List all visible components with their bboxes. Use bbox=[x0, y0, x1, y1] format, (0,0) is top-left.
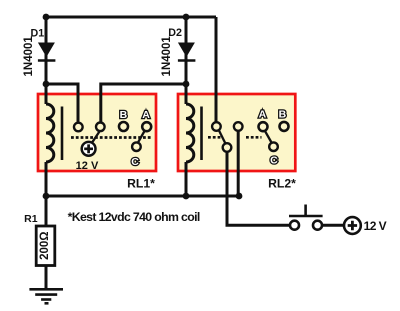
svg-text:A: A bbox=[142, 109, 150, 121]
svg-text:1N4001: 1N4001 bbox=[23, 36, 35, 77]
svg-text:RL1*: RL1* bbox=[127, 177, 155, 191]
svg-text:B: B bbox=[279, 109, 287, 121]
svg-text:C: C bbox=[270, 155, 278, 167]
svg-text:12 V: 12 V bbox=[76, 160, 99, 172]
svg-text:RL2*: RL2* bbox=[268, 177, 296, 191]
svg-text:12 V: 12 V bbox=[364, 219, 387, 233]
svg-text:C: C bbox=[131, 156, 139, 168]
svg-text:200Ω: 200Ω bbox=[39, 231, 51, 259]
svg-text:1N4001: 1N4001 bbox=[161, 36, 173, 77]
svg-text:B: B bbox=[120, 109, 128, 121]
svg-text:R1: R1 bbox=[24, 213, 38, 225]
svg-text:*Kest 12vdc 740 ohm coil: *Kest 12vdc 740 ohm coil bbox=[68, 210, 200, 224]
svg-text:A: A bbox=[259, 109, 267, 121]
